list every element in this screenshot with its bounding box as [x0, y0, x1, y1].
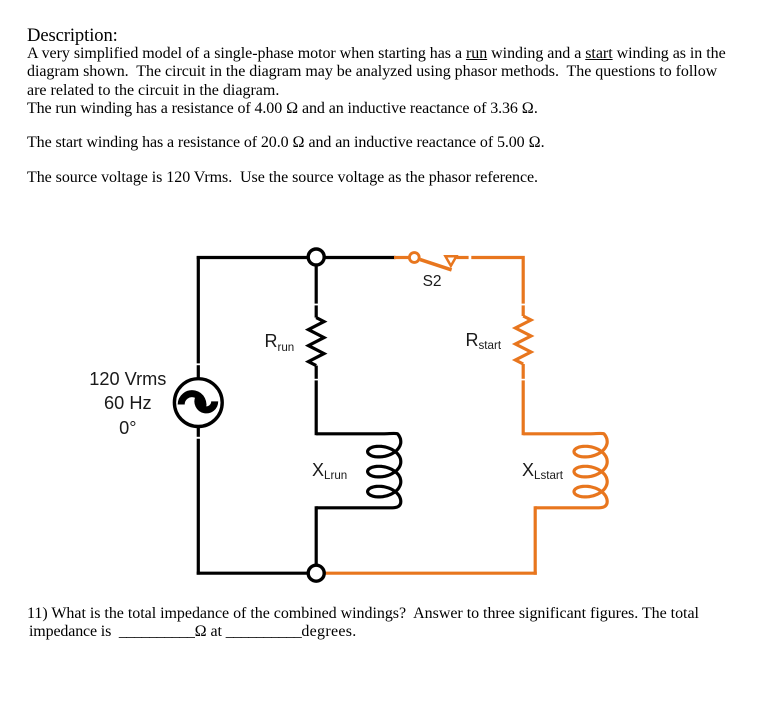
inductor XLrun — [316, 433, 401, 507]
wire bottom horizontal (black) — [197, 572, 317, 575]
heading Description — [27, 27, 118, 46]
wire top right (orange) — [456, 258, 523, 317]
wire bottom horizontal (orange) — [316, 572, 537, 575]
wire left vertical (source branch) — [197, 256, 200, 574]
question line 1 — [27, 606, 699, 622]
label S2 — [423, 274, 442, 290]
label source voltage 120 Vrms 60 Hz 0deg — [88, 367, 168, 441]
label resistor Rstart — [466, 331, 502, 349]
paragraph line 6 — [27, 170, 538, 186]
paragraph line 1 — [27, 46, 726, 62]
switch S2 — [409, 253, 456, 270]
paragraph line 2 — [27, 64, 717, 80]
paragraph line 4 — [27, 101, 538, 117]
resistor Rrun — [308, 318, 324, 366]
label resistor Rrun — [265, 332, 295, 350]
label inductor XLstart — [522, 461, 563, 479]
wire middle branch upper vertical — [315, 258, 318, 318]
question line 2 — [29, 624, 357, 640]
wire middle branch below XLrun — [315, 506, 318, 574]
wire right branch below Rstart — [522, 364, 525, 435]
inductor XLstart — [523, 433, 607, 507]
paragraph line 5 — [27, 135, 545, 151]
wire middle branch below Rrun — [315, 366, 318, 436]
wire switch stub (orange) — [394, 256, 409, 259]
paragraph line 3 — [27, 83, 279, 99]
wire right branch below XLstart — [534, 506, 537, 575]
node bottom junction — [308, 565, 324, 581]
node top junction — [308, 249, 324, 265]
resistor Rstart — [515, 316, 531, 364]
AC source V1 — [174, 379, 222, 427]
label inductor XLrun — [312, 461, 347, 479]
wire top horizontal (black) — [197, 256, 396, 259]
